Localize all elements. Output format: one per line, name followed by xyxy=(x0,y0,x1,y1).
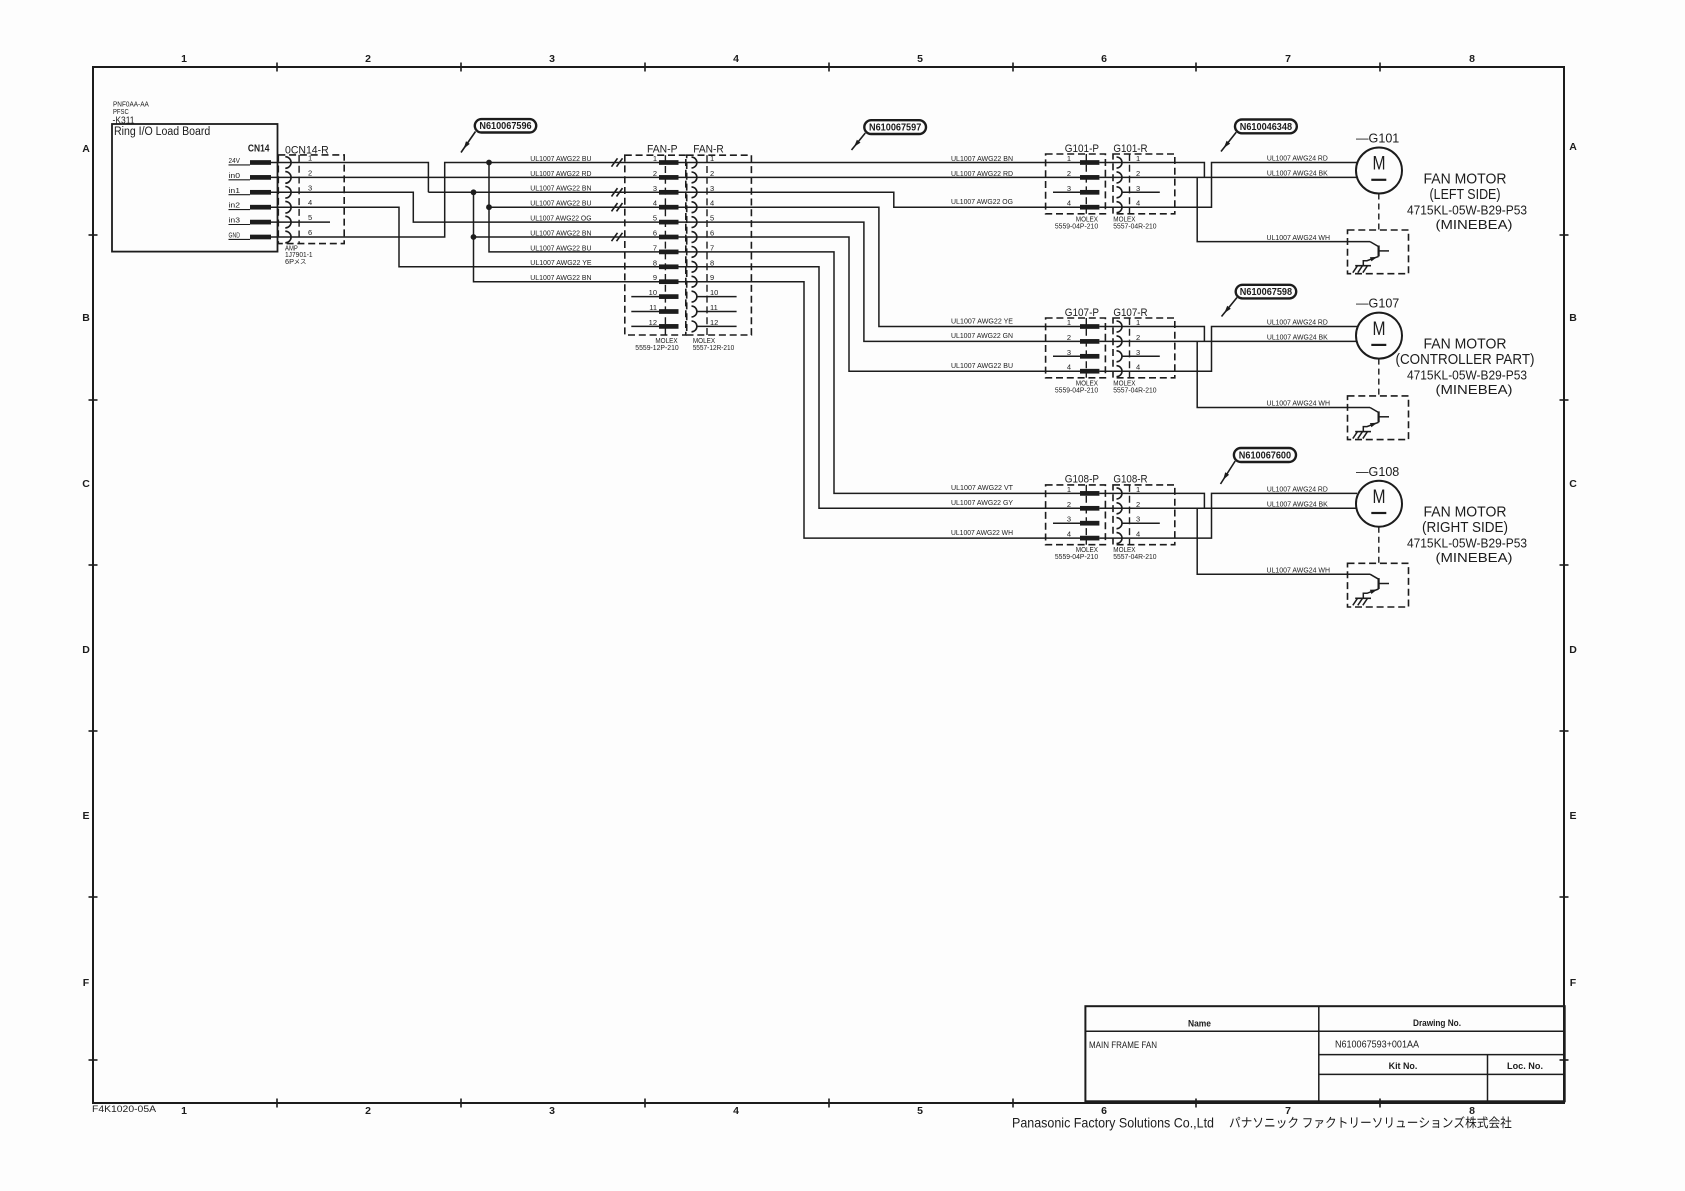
FAN-R pin 1 xyxy=(692,154,715,168)
0CN14-R pin 5 xyxy=(285,213,312,228)
svg-text:5557-04R-210: 5557-04R-210 xyxy=(1113,385,1156,394)
G107-P pin3 stub xyxy=(1053,355,1080,357)
wire GN: FAN-R pin5 down to G107-P pin2 xyxy=(679,222,1081,341)
svg-text:7: 7 xyxy=(1285,1105,1291,1117)
G108-P part label MOLEX 5559-04P-210 xyxy=(1055,545,1098,561)
svg-text:2: 2 xyxy=(1136,169,1140,178)
svg-text:N610067597: N610067597 xyxy=(869,123,922,134)
svg-text:UL1007 AWG22 RD: UL1007 AWG22 RD xyxy=(530,171,591,178)
svg-text:UL1007 AWG24 WH: UL1007 AWG24 WH xyxy=(1267,235,1331,242)
dashed link motor G108 to thermal switch xyxy=(1378,527,1380,564)
svg-text:4715KL-05W-B29-P53: 4715KL-05W-B29-P53 xyxy=(1407,536,1527,551)
wire in2: CN14 pin4 jog to row8 xyxy=(271,207,659,267)
svg-text:(RIGHT SIDE): (RIGHT SIDE) xyxy=(1422,520,1508,536)
G101-R part label MOLEX 5557-04R-210 xyxy=(1113,214,1156,230)
svg-text:4715KL-05W-B29-P53: 4715KL-05W-B29-P53 xyxy=(1407,368,1527,383)
G107-P pin 2 xyxy=(1067,333,1100,344)
FAN-R part label MOLEX 5557-12R-210 xyxy=(693,336,735,352)
wire in1: CN14 pin3 jog to row5 xyxy=(271,192,659,222)
connector G108-R xyxy=(1113,474,1175,545)
svg-text:D: D xyxy=(82,644,90,656)
svg-text:7: 7 xyxy=(710,243,714,252)
board pin CN14-5 in3 xyxy=(229,218,272,225)
svg-text:A: A xyxy=(1569,141,1577,153)
svg-text:4: 4 xyxy=(710,199,714,208)
svg-text:UL1007 AWG22 YE: UL1007 AWG22 YE xyxy=(951,318,1013,325)
FAN-P pin 8 xyxy=(653,258,679,269)
svg-text:N610067596: N610067596 xyxy=(479,121,532,132)
svg-text:FAN MOTOR: FAN MOTOR xyxy=(1424,172,1507,188)
svg-text:2: 2 xyxy=(308,168,312,177)
svg-text:GND: GND xyxy=(229,233,241,240)
svg-text:—G107: —G107 xyxy=(1356,297,1399,311)
svg-text:2: 2 xyxy=(1136,500,1140,509)
svg-text:6: 6 xyxy=(308,228,312,237)
svg-text:4: 4 xyxy=(653,199,657,208)
svg-text:3: 3 xyxy=(1136,184,1140,193)
svg-text:—G108: —G108 xyxy=(1356,465,1399,479)
svg-text:3: 3 xyxy=(549,53,555,65)
G101-R pin 3 xyxy=(1117,184,1141,198)
wire BU: FAN-R pin6 down to G107-P pin4 xyxy=(679,237,1081,371)
fan motor G101 description xyxy=(1407,172,1527,233)
board pin CN14-6 GND xyxy=(229,233,272,240)
connector FAN-P xyxy=(625,143,686,335)
svg-text:G108-R: G108-R xyxy=(1113,474,1147,486)
svg-text:1: 1 xyxy=(653,154,657,163)
part callout N610067598 xyxy=(1222,285,1297,317)
FAN-P pin 1 xyxy=(653,154,679,165)
svg-text:2: 2 xyxy=(653,169,657,178)
G101-R pin 1 xyxy=(1117,154,1141,168)
FAN-P pin 10 stub xyxy=(631,296,659,298)
wire YE: FAN-R pin4 down to G107-P pin1 xyxy=(679,207,1081,326)
fan motor G107 xyxy=(1356,297,1402,359)
svg-text:4: 4 xyxy=(733,53,739,65)
svg-text:UL1007 AWG22 VT: UL1007 AWG22 VT xyxy=(951,485,1014,492)
svg-text:1: 1 xyxy=(1067,485,1071,494)
svg-text:1: 1 xyxy=(1136,485,1140,494)
svg-text:E: E xyxy=(82,810,89,822)
G108-R pin 2 xyxy=(1117,500,1141,514)
wire in3 stub: CN14 pin5 xyxy=(271,221,330,223)
svg-text:1: 1 xyxy=(181,53,187,65)
wire GY: FAN-R pin8 down to G108-P pin2 xyxy=(679,267,1081,509)
fan motor G101 xyxy=(1356,132,1402,194)
wire OG: FAN-R pin3 jog to G101-P pin4 xyxy=(679,192,1081,207)
FAN-R pin 4 xyxy=(692,199,715,213)
svg-text:2: 2 xyxy=(1067,333,1071,342)
svg-text:3: 3 xyxy=(1067,515,1071,524)
wire RD: G108-R pin4 up to motor xyxy=(1100,493,1358,538)
wire BU branch: row1 down to row7, FAN-P pin7 xyxy=(489,163,659,252)
connector G101-R xyxy=(1113,143,1175,214)
wire WH: FAN-R pin9 down to G108-P pin4 xyxy=(679,282,1081,538)
connector G101-P xyxy=(1046,143,1106,214)
0CN14-R pin 4 xyxy=(285,198,312,213)
svg-text:4715KL-05W-B29-P53: 4715KL-05W-B29-P53 xyxy=(1407,203,1527,218)
G107-P part label MOLEX 5559-04P-210 xyxy=(1055,378,1098,394)
svg-text:Drawing No.: Drawing No. xyxy=(1413,1018,1461,1029)
G108-P pin3 stub xyxy=(1053,522,1080,524)
svg-text:FAN-R: FAN-R xyxy=(693,143,724,155)
svg-text:1: 1 xyxy=(308,154,312,163)
svg-text:G101-R: G101-R xyxy=(1113,143,1147,155)
FAN-P pin 3 xyxy=(653,184,679,195)
G108-R part label MOLEX 5557-04R-210 xyxy=(1113,545,1156,561)
fan motor G108 xyxy=(1356,465,1402,527)
svg-text:2: 2 xyxy=(365,53,371,65)
svg-text:5559-12P-210: 5559-12P-210 xyxy=(635,343,678,352)
svg-text:11: 11 xyxy=(649,303,657,312)
svg-text:C: C xyxy=(82,478,90,490)
crossover mark row4 xyxy=(612,203,623,211)
company name xyxy=(1012,1114,1511,1130)
drawing border frame xyxy=(89,63,1569,1108)
G107-P pin 1 xyxy=(1067,318,1100,329)
FAN-P part label MOLEX 5559-12P-210 xyxy=(635,336,678,352)
wire 24V: CN14 pin1 to row3 xyxy=(271,163,428,193)
svg-text:B: B xyxy=(82,312,90,324)
junction row4 x489 xyxy=(486,204,492,210)
svg-text:UL1007 AWG24 RD: UL1007 AWG24 RD xyxy=(1267,320,1328,327)
svg-text:(LEFT SIDE): (LEFT SIDE) xyxy=(1430,187,1501,203)
FAN-R pin 7 xyxy=(692,243,715,257)
svg-text:N610067593+001AA: N610067593+001AA xyxy=(1335,1039,1419,1051)
svg-text:PNF0AA-AA: PNF0AA-AA xyxy=(113,102,149,109)
svg-text:3: 3 xyxy=(1136,515,1140,524)
svg-text:5: 5 xyxy=(653,214,657,223)
wire WH branch down from BK row xyxy=(1197,177,1370,241)
wire RD: G107-R pin4 up to motor xyxy=(1100,327,1358,372)
svg-text:2: 2 xyxy=(365,1105,371,1117)
svg-text:UL1007 AWG22 GN: UL1007 AWG22 GN xyxy=(951,333,1013,340)
svg-text:(MINEBEA): (MINEBEA) xyxy=(1436,382,1513,397)
FAN-P pin 2 xyxy=(653,169,679,180)
svg-text:9: 9 xyxy=(710,273,714,282)
svg-text:UL1007 AWG22 BN: UL1007 AWG22 BN xyxy=(530,186,591,193)
wire BN: FAN-R pin1 to G101-P pin1 xyxy=(679,162,1081,164)
svg-text:—G101: —G101 xyxy=(1356,132,1399,146)
FAN-P pin 4 xyxy=(653,199,679,210)
svg-text:5559-04P-210: 5559-04P-210 xyxy=(1055,221,1098,230)
svg-text:in0: in0 xyxy=(229,173,241,180)
svg-text:UL1007 AWG22 BN: UL1007 AWG22 BN xyxy=(951,156,1013,163)
connector G108-P xyxy=(1046,474,1106,545)
G107-P pin 4 xyxy=(1067,363,1100,374)
svg-text:1: 1 xyxy=(1067,318,1071,327)
svg-text:(CONTROLLER PART): (CONTROLLER PART) xyxy=(1396,352,1535,368)
FAN-R pin 6 xyxy=(692,229,715,243)
svg-text:M: M xyxy=(1373,487,1386,508)
G101-P pin 4 xyxy=(1067,199,1100,210)
FAN-R pin 10 stub xyxy=(697,296,737,298)
G107-R pin 4 xyxy=(1117,363,1141,377)
G107-R pin3 stub xyxy=(1122,355,1160,357)
svg-text:8: 8 xyxy=(1469,53,1475,65)
part callout N610067596 xyxy=(461,119,536,152)
board K311 Ring I/O Load Board xyxy=(112,102,278,252)
part callout N610067600 xyxy=(1221,448,1297,484)
svg-text:1: 1 xyxy=(1136,318,1140,327)
G101-P pin 2 xyxy=(1067,169,1100,180)
wire RD: G101-R pin4 up to motor xyxy=(1100,163,1358,208)
G107-R pin 1 xyxy=(1117,318,1141,332)
thermal switch of G108 xyxy=(1348,563,1409,607)
title block xyxy=(1085,1006,1564,1101)
FAN-P pin 11 stub xyxy=(631,311,659,313)
svg-text:11: 11 xyxy=(710,303,718,312)
G108-P pin 1 xyxy=(1067,485,1100,496)
svg-text:12: 12 xyxy=(710,318,718,327)
svg-text:5: 5 xyxy=(917,1105,923,1117)
svg-text:UL1007 AWG22 OG: UL1007 AWG22 OG xyxy=(530,216,591,223)
svg-text:10: 10 xyxy=(649,288,657,297)
FAN-P pin 6 xyxy=(653,229,679,240)
svg-text:FAN MOTOR: FAN MOTOR xyxy=(1424,337,1507,353)
svg-text:UL1007 AWG22 YE: UL1007 AWG22 YE xyxy=(530,260,592,267)
svg-text:4: 4 xyxy=(1136,363,1140,372)
svg-text:(MINEBEA): (MINEBEA) xyxy=(1436,550,1513,565)
svg-text:UL1007 AWG22 BU: UL1007 AWG22 BU xyxy=(530,245,591,252)
0CN14-R pin 1 xyxy=(285,154,312,169)
G108-P pin 2 xyxy=(1067,500,1100,511)
crossover mark row6 xyxy=(612,233,623,241)
svg-text:FAN-P: FAN-P xyxy=(647,143,678,155)
svg-text:4: 4 xyxy=(1136,530,1140,539)
svg-text:N610046348: N610046348 xyxy=(1240,122,1293,133)
FAN-P pin 12 xyxy=(649,318,679,329)
svg-text:2: 2 xyxy=(710,169,714,178)
wire BK: G101-R pin2 to motor xyxy=(1100,176,1357,178)
wire BU branch: row4 to FAN-P pin4 xyxy=(489,206,659,208)
svg-text:4: 4 xyxy=(308,198,312,207)
svg-text:8: 8 xyxy=(653,258,657,267)
G101-R pin 2 xyxy=(1117,169,1141,183)
svg-text:Kit No.: Kit No. xyxy=(1389,1061,1418,1072)
FAN-R pin 11 xyxy=(692,303,718,317)
svg-text:UL1007 AWG22 BU: UL1007 AWG22 BU xyxy=(951,363,1013,370)
svg-text:UL1007 AWG24 BK: UL1007 AWG24 BK xyxy=(1267,335,1328,342)
0CN14-R pin 3 xyxy=(285,183,312,198)
dashed link motor G107 to thermal switch xyxy=(1378,359,1380,396)
svg-text:12: 12 xyxy=(649,318,657,327)
G108-R pin 4 xyxy=(1117,530,1141,544)
FAN-P pin 5 xyxy=(653,214,679,225)
svg-text:5557-04R-210: 5557-04R-210 xyxy=(1113,552,1156,561)
ground hatch of G108 thermal switch xyxy=(1353,598,1371,605)
G108-R pin3 stub xyxy=(1122,522,1160,524)
FAN-P pin 9 xyxy=(653,273,679,284)
crossover mark row3 xyxy=(612,188,623,196)
G108-R pin 1 xyxy=(1117,485,1141,499)
svg-text:6: 6 xyxy=(1101,53,1107,65)
svg-text:UL1007 AWG22 RD: UL1007 AWG22 RD xyxy=(951,171,1013,178)
thermal switch of G101 xyxy=(1348,230,1409,274)
svg-text:E: E xyxy=(1569,810,1576,822)
fan motor G107 description xyxy=(1396,337,1535,398)
svg-text:8: 8 xyxy=(1469,1105,1475,1117)
svg-text:1: 1 xyxy=(710,154,714,163)
svg-text:6: 6 xyxy=(653,229,657,238)
svg-text:24V: 24V xyxy=(229,158,241,165)
svg-text:UL1007 AWG24 RD: UL1007 AWG24 RD xyxy=(1267,156,1328,163)
connector FAN-R xyxy=(687,143,752,335)
G107-R pin 2 xyxy=(1117,333,1141,347)
zone numbers bottom xyxy=(181,1105,1475,1117)
svg-text:UL1007 AWG22 WH: UL1007 AWG22 WH xyxy=(951,530,1013,537)
svg-text:9: 9 xyxy=(653,273,657,282)
wire GND: CN14 pin6 up to row1 xyxy=(271,163,659,238)
svg-text:3: 3 xyxy=(308,183,312,192)
svg-text:3: 3 xyxy=(1067,184,1071,193)
0CN14-R pin 6 xyxy=(285,228,312,243)
wire WH branch down from BK row xyxy=(1197,508,1370,574)
connector G107-R xyxy=(1113,307,1175,378)
FAN-R pin 2 xyxy=(692,169,715,183)
svg-text:UL1007 AWG24 WH: UL1007 AWG24 WH xyxy=(1267,401,1331,408)
wire BN row3 to FAN-P pin3 xyxy=(428,191,659,193)
G101-P pin 1 xyxy=(1067,154,1100,165)
svg-text:UL1007 AWG24 BK: UL1007 AWG24 BK xyxy=(1267,171,1328,178)
zone numbers top xyxy=(181,53,1475,65)
svg-text:in2: in2 xyxy=(229,203,241,210)
wire VT: FAN-R pin7 down to G108-P pin1 xyxy=(679,252,1081,494)
svg-text:3: 3 xyxy=(549,1105,555,1117)
svg-text:UL1007 AWG24 WH: UL1007 AWG24 WH xyxy=(1267,567,1331,574)
junction row3 x473.5 xyxy=(471,189,477,195)
FAN-R pin 12 xyxy=(692,318,719,332)
G101-R pin3 stub xyxy=(1122,191,1160,193)
ground hatch of G107 thermal switch xyxy=(1353,432,1371,439)
svg-text:G108-P: G108-P xyxy=(1065,474,1099,486)
svg-text:A: A xyxy=(82,143,90,155)
FAN-R pin 3 xyxy=(692,184,715,198)
svg-text:4: 4 xyxy=(1067,199,1071,208)
junction row6 x473.5 xyxy=(471,234,477,240)
svg-text:7: 7 xyxy=(1285,53,1291,65)
wire BK: G108-R pin2 to motor xyxy=(1100,507,1357,509)
zone letters left xyxy=(82,143,90,989)
wire BN branch: row6 to FAN-P pin6 xyxy=(474,236,660,238)
svg-text:Ring I/O Load Board: Ring I/O Load Board xyxy=(114,126,210,138)
svg-text:UL1007 AWG22 BN: UL1007 AWG22 BN xyxy=(530,230,591,237)
FAN-P pin 11 xyxy=(649,303,678,314)
board pin CN14-1 24V xyxy=(229,158,272,165)
FAN-R pin 5 xyxy=(692,214,715,228)
svg-text:G107-P: G107-P xyxy=(1065,307,1099,319)
svg-text:UL1007 AWG22 OG: UL1007 AWG22 OG xyxy=(951,199,1013,206)
board pin CN14-2 in0 xyxy=(229,173,272,180)
svg-text:5: 5 xyxy=(308,213,312,222)
svg-text:G101-P: G101-P xyxy=(1065,143,1099,155)
svg-text:Loc. No.: Loc. No. xyxy=(1507,1061,1543,1072)
svg-text:3: 3 xyxy=(710,184,714,193)
svg-text:Name: Name xyxy=(1188,1019,1211,1030)
svg-text:3: 3 xyxy=(653,184,657,193)
G101-R pin 4 xyxy=(1117,199,1141,213)
G101-P part label MOLEX 5559-04P-210 xyxy=(1055,214,1098,230)
svg-text:FAN MOTOR: FAN MOTOR xyxy=(1424,505,1507,521)
G107-R pin 3 xyxy=(1117,348,1141,362)
svg-text:UL1007 AWG24 BK: UL1007 AWG24 BK xyxy=(1267,502,1328,509)
FAN-P pin 7 xyxy=(653,243,679,254)
svg-text:in3: in3 xyxy=(229,218,241,225)
G108-P pin 4 xyxy=(1067,530,1100,541)
svg-text:2: 2 xyxy=(1067,500,1071,509)
svg-text:5559-04P-210: 5559-04P-210 xyxy=(1055,552,1098,561)
wire RD: FAN-R pin2 to G101-P pin2 xyxy=(679,176,1081,178)
svg-text:10: 10 xyxy=(710,288,718,297)
G107-R part label MOLEX 5557-04R-210 xyxy=(1113,378,1156,394)
dashed link motor G101 to thermal switch xyxy=(1378,194,1380,231)
zone letters right xyxy=(1569,141,1577,989)
wire WH branch down from BK row xyxy=(1197,341,1370,407)
junction row1 x489 xyxy=(486,160,492,166)
FAN-R pin 9 xyxy=(692,273,715,287)
svg-text:D: D xyxy=(1569,644,1577,656)
svg-text:6: 6 xyxy=(710,229,714,238)
FAN-R pin 10 xyxy=(692,288,719,302)
G108-P pin 3 xyxy=(1067,515,1100,526)
svg-text:5557-12R-210: 5557-12R-210 xyxy=(693,343,735,352)
wire G108-R pin1 jog down xyxy=(1100,493,1205,508)
svg-text:8: 8 xyxy=(710,258,714,267)
svg-text:F4K1020-05A: F4K1020-05A xyxy=(92,1104,157,1115)
svg-text:N610067598: N610067598 xyxy=(1240,287,1293,298)
svg-text:2: 2 xyxy=(1067,169,1071,178)
G107-P pin 3 xyxy=(1067,348,1100,359)
FAN-R pin 11 stub xyxy=(697,311,737,313)
svg-text:(MINEBEA): (MINEBEA) xyxy=(1436,217,1513,232)
svg-text:G107-R: G107-R xyxy=(1113,307,1147,319)
0CN14-R part label AMP 1J7901-1 6P female xyxy=(285,246,313,266)
wire in0: CN14 pin2 to FAN-P pin2 xyxy=(271,176,659,178)
part callout N610046348 xyxy=(1221,120,1297,152)
wire BK: G107-R pin2 to motor xyxy=(1100,340,1357,342)
wire G107-R pin1 jog down xyxy=(1100,327,1205,342)
FAN-P pin 12 stub xyxy=(631,325,659,327)
G108-R pin 3 xyxy=(1117,515,1141,529)
svg-text:1: 1 xyxy=(181,1105,187,1117)
svg-text:5: 5 xyxy=(710,214,714,223)
svg-text:UL1007 AWG22 GY: UL1007 AWG22 GY xyxy=(951,500,1013,507)
svg-text:M: M xyxy=(1373,319,1386,340)
FAN-P pin 10 xyxy=(649,288,679,299)
svg-text:UL1007 AWG22 BN: UL1007 AWG22 BN xyxy=(530,275,591,282)
svg-text:1: 1 xyxy=(1067,154,1071,163)
svg-text:F: F xyxy=(1570,977,1577,989)
svg-text:UL1007 AWG24 RD: UL1007 AWG24 RD xyxy=(1267,487,1328,494)
svg-text:in1: in1 xyxy=(229,188,241,195)
fan motor G108 description xyxy=(1407,505,1527,566)
board pin CN14-4 in2 xyxy=(229,203,272,210)
connector 0CN14-R xyxy=(278,144,344,243)
wire BN branch: row3 down to row9, FAN-P pin9 xyxy=(474,192,660,281)
svg-text:Panasonic Factory Solutions Co: Panasonic Factory Solutions Co.,Ltd xyxy=(1012,1114,1214,1130)
svg-text:7: 7 xyxy=(653,243,657,252)
svg-text:4: 4 xyxy=(1067,530,1071,539)
svg-text:UL1007 AWG22 BU: UL1007 AWG22 BU xyxy=(530,201,591,208)
svg-text:1: 1 xyxy=(1136,154,1140,163)
0CN14-R pin 2 xyxy=(285,168,312,183)
svg-text:6P: 6P xyxy=(285,259,294,266)
svg-text:3: 3 xyxy=(1067,348,1071,357)
svg-text:3: 3 xyxy=(1136,348,1140,357)
svg-text:4: 4 xyxy=(1136,199,1140,208)
wire G101-R pin1 jog down xyxy=(1100,163,1205,178)
thermal switch of G107 xyxy=(1348,396,1409,440)
